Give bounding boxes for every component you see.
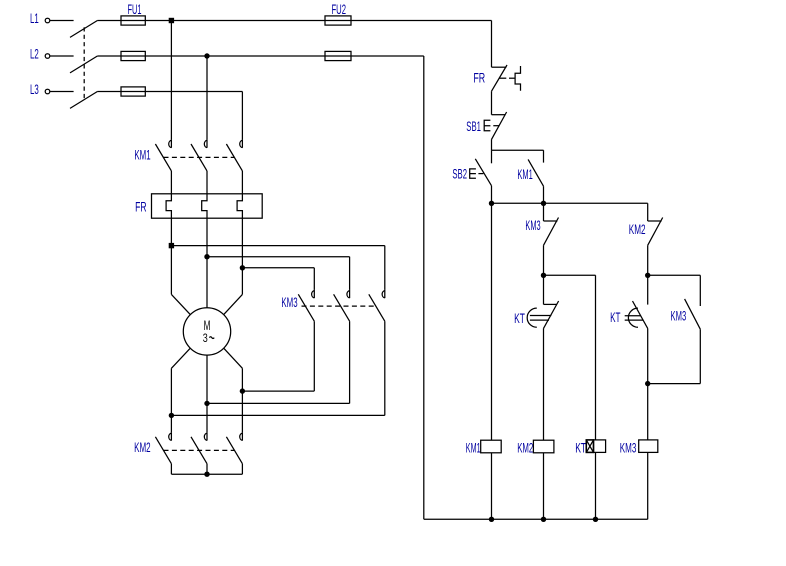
svg-text:L1: L1 xyxy=(30,11,39,26)
svg-text:L3: L3 xyxy=(30,82,39,97)
svg-text:KT: KT xyxy=(575,441,586,456)
svg-text:FR: FR xyxy=(135,200,147,215)
svg-text:KM2: KM2 xyxy=(134,440,151,455)
svg-text:KT: KT xyxy=(610,310,620,325)
svg-text:L2: L2 xyxy=(30,47,39,62)
svg-text:KM2: KM2 xyxy=(517,441,533,456)
svg-text:SB1: SB1 xyxy=(466,119,481,134)
svg-text:KM1: KM1 xyxy=(466,441,481,456)
svg-text:KM3: KM3 xyxy=(281,295,297,310)
svg-text:SB2: SB2 xyxy=(452,167,467,182)
svg-text:KM1: KM1 xyxy=(134,147,150,162)
svg-text:KM3: KM3 xyxy=(525,218,540,233)
svg-text:KM3: KM3 xyxy=(620,440,637,455)
svg-text:KM2: KM2 xyxy=(629,222,646,237)
svg-text:FR: FR xyxy=(473,71,485,86)
svg-text:KM3: KM3 xyxy=(671,308,687,323)
svg-text:3: 3 xyxy=(203,331,208,345)
svg-text:KT: KT xyxy=(514,311,525,326)
svg-text:FU2: FU2 xyxy=(332,2,347,17)
svg-text:FU1: FU1 xyxy=(128,2,142,17)
svg-text:KM1: KM1 xyxy=(517,167,532,182)
